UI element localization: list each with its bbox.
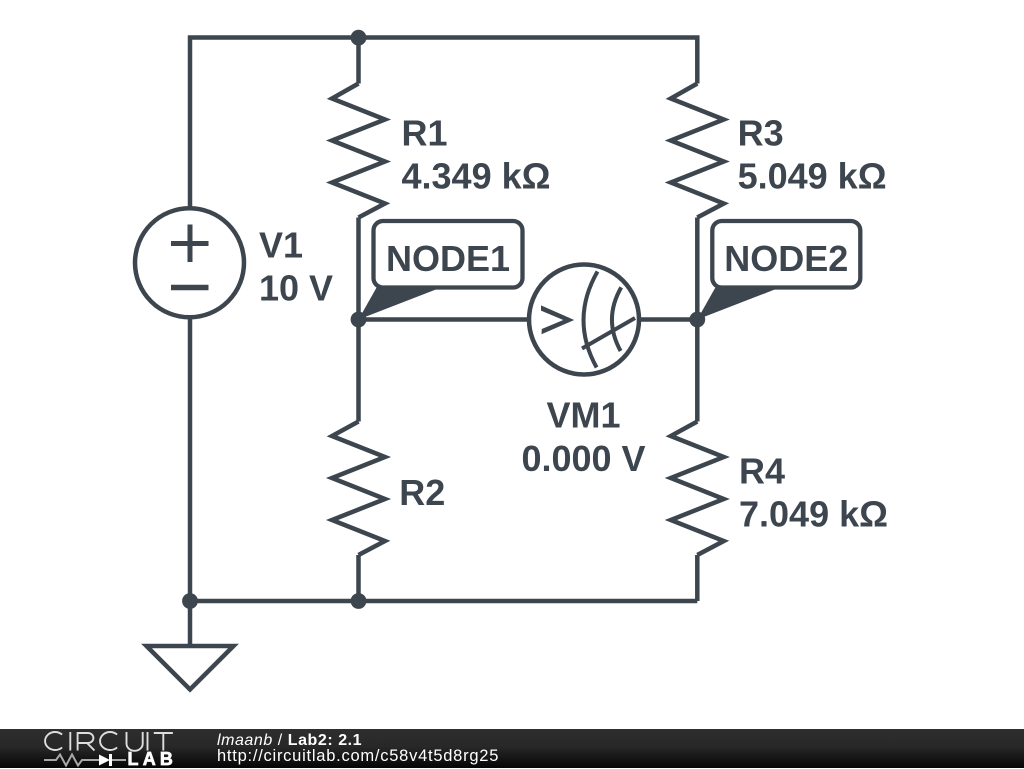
node NODE2 dot [689,312,705,328]
wire bottom rail [190,601,697,646]
footer title [217,733,362,749]
wire top rail [190,38,697,208]
node ground dot [182,593,198,609]
ground [147,646,234,690]
svg-text:V1: V1 [259,224,303,265]
CircuitLab logo text [40,730,180,754]
node dot top [351,30,367,46]
svg-text:NODE2: NODE2 [724,238,848,279]
CircuitLab logo LAB [128,753,178,766]
svg-text:0.000 V: 0.000 V [521,438,645,479]
wire R2 to bottom rail [356,555,361,601]
svg-text:5.049 kΩ: 5.049 kΩ [738,155,887,196]
wire node1 to R2 [356,320,361,422]
svg-text:R1: R1 [402,112,448,153]
footer bar [0,729,1024,768]
svg-text:R3: R3 [738,112,784,153]
node NODE1 callout [359,221,523,320]
wire node2 to R4 [695,320,700,422]
CircuitLab logo squiggle [44,752,134,768]
svg-text:R2: R2 [399,472,445,513]
wire R1 top stub [356,38,361,84]
node NODE1 dot [351,312,367,328]
svg-text:VM1: VM1 [546,395,620,436]
footer url [217,748,499,764]
resistor R1 [332,84,385,218]
svg-text:4.349 kΩ: 4.349 kΩ [402,155,551,196]
resistor R3 [671,84,724,218]
wire node1 to voltmeter [359,317,530,322]
wire R4 to bottom rail [695,555,700,601]
node bottom R2 dot [351,593,367,609]
node NODE2 callout [697,221,860,320]
resistor R4 [671,422,724,556]
svg-text:NODE1: NODE1 [386,238,510,279]
wire voltmeter to node2 [639,317,697,322]
wire R3 to node2 [695,218,700,320]
svg-text:R4: R4 [739,451,785,492]
svg-text:10 V: 10 V [259,268,333,309]
wire V1 bottom [188,318,193,601]
wire R1 to node1 [356,218,361,320]
voltmeter VM1 [529,265,639,375]
svg-text:7.049 kΩ: 7.049 kΩ [739,494,888,535]
voltage source V1 [135,208,244,317]
resistor R2 [332,422,385,556]
